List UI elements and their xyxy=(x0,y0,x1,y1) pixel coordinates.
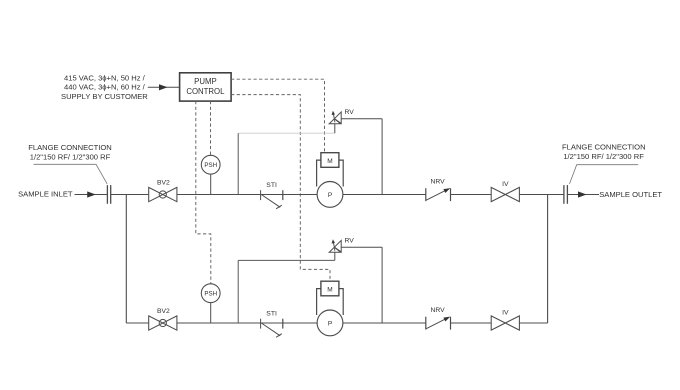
RV discharge header (bottom) xyxy=(341,246,382,248)
relief return down-pipe (top) xyxy=(237,133,239,194)
svg-text:BV2: BV2 xyxy=(157,308,170,315)
leader line (inlet flange note) xyxy=(34,164,108,184)
motor M (top) xyxy=(321,153,339,168)
RV outlet stub (bottom) xyxy=(334,252,336,260)
top pipe segment: NRV to IV xyxy=(451,194,492,196)
flow arrowhead (outlet) xyxy=(578,191,587,197)
pressure switch PSH (top) xyxy=(201,155,220,174)
svg-text:1/2"150 RF/ 1/2"300 RF: 1/2"150 RF/ 1/2"300 RF xyxy=(563,152,644,161)
ball valve BV2 (bottom) xyxy=(149,316,177,330)
inlet flange pair xyxy=(107,185,110,204)
pump housing (bottom) xyxy=(317,289,344,315)
lower pipe segment: NRV to IV xyxy=(451,322,492,324)
svg-text:RV: RV xyxy=(345,238,355,245)
control wire: pump control to upper motor M xyxy=(231,79,324,153)
svg-text:RV: RV xyxy=(345,109,355,116)
svg-text:SAMPLE OUTLET: SAMPLE OUTLET xyxy=(599,190,662,199)
svg-text:P: P xyxy=(328,320,332,327)
svg-text:STI: STI xyxy=(266,182,277,189)
outlet flange pair xyxy=(564,185,568,204)
motor M (bottom) xyxy=(321,281,339,296)
gate valve IV (bottom) xyxy=(491,316,519,330)
svg-text:CONTROL: CONTROL xyxy=(186,87,225,96)
lower pipe segment: IV to riser xyxy=(519,322,547,324)
lower pipe segment: tee to BV2 xyxy=(126,322,148,324)
branch tee down-pipe xyxy=(125,195,127,324)
leader line (outlet flange note) xyxy=(570,165,639,184)
svg-text:FLANGE CONNECTION: FLANGE CONNECTION xyxy=(562,143,646,152)
pump P (top) xyxy=(317,182,343,208)
svg-text:STI: STI xyxy=(266,311,277,318)
pump control box U1 xyxy=(180,73,232,101)
svg-text:BV2: BV2 xyxy=(157,180,170,187)
outlet wire xyxy=(567,194,599,196)
svg-text:SUPPLY BY CUSTOMER: SUPPLY BY CUSTOMER xyxy=(61,92,148,101)
RV discharge down-pipe (bottom) xyxy=(381,247,383,323)
pressure switch PSH (bottom) xyxy=(201,284,220,303)
svg-text:FLANGE CONNECTION: FLANGE CONNECTION xyxy=(28,143,112,152)
svg-text:440 VAC, 3ϕ+N, 60 Hz /: 440 VAC, 3ϕ+N, 60 Hz / xyxy=(64,83,146,92)
ball valve BV2 (top) xyxy=(149,187,177,201)
merge riser pipe xyxy=(547,195,549,324)
pump P (bottom) xyxy=(317,310,343,336)
top pipe segment: flange to BV2 xyxy=(111,194,149,196)
RV discharge header (top) xyxy=(341,118,382,120)
check valve NRV (top) xyxy=(426,188,451,201)
relief valve RV (top) xyxy=(329,111,341,124)
RV discharge down-pipe (top) xyxy=(381,119,383,195)
svg-text:P: P xyxy=(328,192,332,199)
lower pipe segment: BV2 to NRV xyxy=(177,322,426,324)
relief return down-pipe (bottom) xyxy=(237,260,239,323)
check valve NRV (bottom) xyxy=(426,317,451,330)
relief valve RV (bottom) xyxy=(329,239,341,252)
strainer STI (top) xyxy=(261,190,283,209)
control wire: pump control to lower PSH xyxy=(196,101,211,284)
inlet wire xyxy=(75,194,108,196)
RV outlet stub (top) xyxy=(334,124,336,133)
power supply note xyxy=(61,73,148,101)
svg-text:NRV: NRV xyxy=(430,307,445,314)
control wire: pump control to lower motor M xyxy=(231,95,330,281)
svg-text:1/2"150 RF/ 1/2"300 RF: 1/2"150 RF/ 1/2"300 RF xyxy=(30,152,111,161)
svg-text:415 VAC, 3ϕ+N, 50 Hz /: 415 VAC, 3ϕ+N, 50 Hz / xyxy=(64,73,146,82)
svg-text:SAMPLE INLET: SAMPLE INLET xyxy=(18,189,73,198)
wire: supply feed to pump control xyxy=(148,86,180,88)
top pipe segment: IV to flange xyxy=(519,194,564,196)
gate valve IV (top) xyxy=(491,187,519,201)
svg-text:IV: IV xyxy=(502,181,509,188)
svg-text:PSH: PSH xyxy=(204,162,217,169)
flange connection note (outlet) xyxy=(562,143,646,161)
control wire: pump control to upper PSH xyxy=(210,101,212,155)
arrowhead: supply feed xyxy=(159,84,168,90)
flange connection note (inlet) xyxy=(28,143,112,161)
svg-text:PUMP: PUMP xyxy=(194,77,217,86)
svg-text:IV: IV xyxy=(502,309,509,316)
strainer STI (bottom) xyxy=(261,319,283,338)
svg-text:M: M xyxy=(327,158,332,165)
pump housing (top) xyxy=(317,160,344,186)
svg-text:PSH: PSH xyxy=(204,290,217,297)
PSH stem (bottom) xyxy=(210,303,212,323)
relief return pipe (top) xyxy=(238,132,335,134)
svg-text:NRV: NRV xyxy=(430,178,445,185)
PSH stem (top) xyxy=(210,174,212,194)
top pipe segment: BV2 to NRV xyxy=(177,194,426,196)
relief return pipe (bottom) xyxy=(238,259,335,261)
pump control label xyxy=(186,77,225,96)
svg-text:M: M xyxy=(327,286,332,293)
flow arrowhead (inlet) xyxy=(87,191,96,197)
